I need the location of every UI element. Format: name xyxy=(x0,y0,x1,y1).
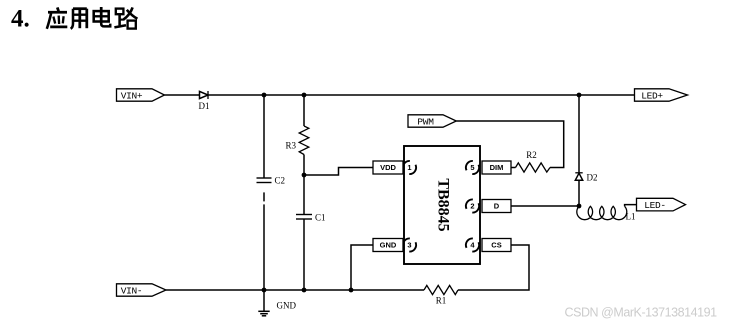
pin 4 xyxy=(463,236,481,254)
wire C1 to bottom rail xyxy=(303,219,305,290)
junction dot VDD node xyxy=(302,173,307,178)
junction dot rail GND pin xyxy=(349,288,354,293)
resistor R2 xyxy=(516,150,551,172)
svg-text:VIN-: VIN- xyxy=(121,285,143,296)
title number 4. xyxy=(11,6,30,33)
svg-text:CSDN @MarK-13713814191: CSDN @MarK-13713814191 xyxy=(565,306,718,320)
svg-text:R3: R3 xyxy=(285,141,296,151)
wire C2 branch upper xyxy=(263,95,265,178)
用 xyxy=(71,9,73,29)
svg-text:1: 1 xyxy=(407,163,411,172)
pin label DIM xyxy=(482,161,511,174)
svg-text:4.: 4. xyxy=(11,6,30,33)
svg-text:R2: R2 xyxy=(526,150,537,160)
svg-text:D1: D1 xyxy=(199,101,210,111)
svg-text:L1: L1 xyxy=(626,212,636,222)
wire VIN+ to D1 xyxy=(165,94,200,96)
title chinese 应用电路 (drawn strokes) xyxy=(47,7,138,29)
pin 2 xyxy=(463,197,481,215)
svg-text:R1: R1 xyxy=(436,296,447,306)
svg-text:GND: GND xyxy=(277,301,297,311)
junction dot rail C1 xyxy=(302,288,307,293)
inductor L1 xyxy=(577,206,636,221)
node LED- xyxy=(637,198,686,211)
wire R3 branch upper xyxy=(303,95,305,126)
wire DIM to R2 xyxy=(511,167,516,169)
wire D2 branch upper xyxy=(578,95,580,173)
路 xyxy=(116,9,124,15)
pin label CS xyxy=(482,239,511,252)
junction dot at R3 top xyxy=(302,93,307,98)
svg-text:D2: D2 xyxy=(587,173,598,183)
wire bottom rail xyxy=(166,289,424,291)
node VIN- xyxy=(117,284,167,297)
wire PWM to R2 xyxy=(456,121,563,168)
wire D pin to switch node xyxy=(511,205,579,207)
svg-text:GND: GND xyxy=(380,241,397,250)
wire D1 to top-right junction xyxy=(208,94,579,96)
pin 5 xyxy=(463,158,481,176)
junction dot rail C2 xyxy=(262,288,267,293)
wire CS pin to R1 xyxy=(458,245,529,290)
svg-text:TB8845: TB8845 xyxy=(434,178,451,231)
resistor R1 xyxy=(424,285,458,305)
capacitor C1 xyxy=(296,213,326,223)
node PWM xyxy=(408,115,456,128)
svg-text:C2: C2 xyxy=(275,176,286,186)
junction dot at C2 top xyxy=(262,93,267,98)
wire GND pin to rail xyxy=(351,245,373,290)
capacitor C2 xyxy=(257,176,286,186)
pin 1 xyxy=(400,158,418,176)
应 xyxy=(57,7,58,11)
junction dot at D2 top xyxy=(577,93,582,98)
svg-text:CS: CS xyxy=(491,241,501,250)
电 xyxy=(100,7,103,22)
svg-text:C1: C1 xyxy=(315,213,326,223)
wire L1 to LED- xyxy=(625,205,637,207)
pin label D xyxy=(482,200,511,213)
resistor R3 xyxy=(285,126,308,155)
node VIN+ xyxy=(117,89,165,102)
op IC U1 TB8845 body xyxy=(404,146,480,264)
svg-text:LED-: LED- xyxy=(644,200,666,211)
wire R3 to node xyxy=(303,155,305,215)
pin label VDD xyxy=(373,161,403,174)
diode D1 xyxy=(199,91,210,111)
pin label GND xyxy=(373,239,403,252)
junction dot switch node xyxy=(577,204,582,209)
svg-text:VDD: VDD xyxy=(380,163,396,172)
wire D2 to switch node xyxy=(578,180,580,206)
svg-text:D: D xyxy=(494,202,500,211)
watermark xyxy=(565,306,718,320)
svg-text:LED+: LED+ xyxy=(641,90,663,101)
wire junction to LED+ xyxy=(579,94,635,96)
svg-text:3: 3 xyxy=(407,241,411,250)
node LED+ xyxy=(635,89,688,102)
ground xyxy=(258,290,296,316)
wire C2 branch lower xyxy=(263,192,265,290)
svg-text:PWM: PWM xyxy=(417,116,434,127)
pin 3 xyxy=(400,236,418,254)
svg-text:5: 5 xyxy=(470,163,474,172)
svg-text:VIN+: VIN+ xyxy=(121,90,143,101)
diode D2 xyxy=(575,173,597,183)
wire node to VDD pin xyxy=(304,168,373,176)
svg-text:2: 2 xyxy=(470,202,474,211)
svg-text:DIM: DIM xyxy=(490,163,504,172)
